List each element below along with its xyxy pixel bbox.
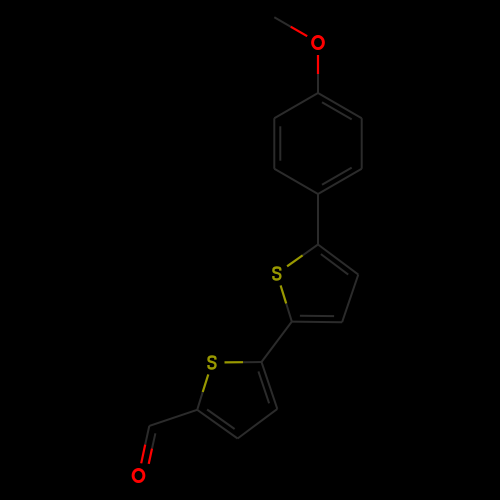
bond thiophene1-thiophene2 [262,322,292,362]
thiophene1 bond S-C2 [281,285,287,303]
thiophene2 bond C3-C4 [238,409,278,439]
thiophene2 bond C2-C3 [262,362,278,409]
atom label O methoxy [313,36,324,48]
thiophene1 bond C4-C5 [318,245,358,275]
aldehyde C=O second line [152,433,155,448]
thiophene1 inner double line C2=C3 [300,315,334,317]
benzene bond C4-C5 [274,169,318,194]
thiophene2 bond S-C5 [203,374,209,392]
thiophene1 inner double line C4=C5 [321,254,348,275]
benzene inner double line C5=C6 [279,126,281,160]
atom label S thiophene1 [273,268,280,280]
aldehyde C=O main line [145,426,149,445]
thiophene2 inner double line C4=C5 [207,410,235,430]
thiophene1 bond C5-S [303,245,318,256]
thiophene2 inner double line C2=C3 [258,371,269,403]
thiophene1 bond C2-C3 [292,321,342,324]
bond CH3-O methoxy [274,17,290,27]
thiophene2 bond C4-C5 [197,410,237,439]
bond O-C1 aryl ether [317,55,319,74]
atom label O aldehyde [133,469,144,481]
benzene bond C3-C4 [318,169,362,194]
benzene bond C5-C6 [273,118,275,169]
thiophene1 bond C3-C4 [342,275,358,323]
benzene bond C2-C3 [361,118,363,169]
benzene inner double line C3=C4 [322,168,352,185]
bond benzene-thiophene1 [317,194,319,245]
bond thiophene2-CHO [149,410,197,426]
benzene bond C6-C1 [274,93,318,118]
thiophene2 bond C2-S [243,361,262,363]
atom label S thiophene2 [209,357,216,369]
benzene inner double line C1=C2 [322,102,352,119]
benzene bond C1-C2 [318,93,362,118]
